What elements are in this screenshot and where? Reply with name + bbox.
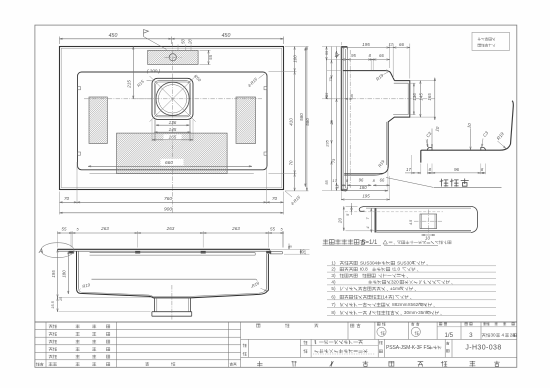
stamp box xyxy=(472,32,510,50)
elevation drain boss xyxy=(154,298,156,312)
section: drain boss inner wall xyxy=(393,83,408,114)
A-detail dims 7/4 xyxy=(370,208,372,232)
section top dim 195/12/66 xyxy=(340,42,342,45)
elevation drain centerline xyxy=(171,285,173,320)
drain outer square 165 xyxy=(152,78,193,119)
section bottom dim 195 xyxy=(341,199,389,201)
svg-text:195: 195 xyxy=(51,270,56,278)
clip tab right upper xyxy=(264,87,267,90)
elevation right dims 5/20 xyxy=(271,248,310,250)
clip tab left lower xyxy=(78,152,81,155)
drain diagonal 2 xyxy=(150,76,196,122)
bottom dim 900 xyxy=(60,212,284,214)
svg-text:PSSA-JSM-K-3F FS: PSSA-JSM-K-3F FS xyxy=(386,345,430,351)
svg-text:3): 3) xyxy=(331,273,336,278)
enlarged view rib left (C3) xyxy=(427,148,432,151)
svg-text:20: 20 xyxy=(301,249,306,255)
notes list xyxy=(327,265,496,267)
dim 215 xyxy=(132,47,134,99)
bottom dims 70/760/70 xyxy=(59,192,61,215)
svg-text:10: 10 xyxy=(425,236,430,241)
svg-text:410: 410 xyxy=(288,118,293,126)
drain circle outer xyxy=(156,82,189,115)
section: counter surface double line xyxy=(340,47,342,191)
enlarged dim 10 left xyxy=(431,129,433,148)
elevation mounting clips xyxy=(69,251,74,254)
stamps xyxy=(377,327,386,336)
svg-text:136: 136 xyxy=(412,93,417,101)
enlarged view rib right (C3) xyxy=(481,148,486,151)
faucet hole centerline xyxy=(165,56,182,58)
svg-text:263: 263 xyxy=(231,226,240,231)
svg-text:SUS304: SUS304 xyxy=(360,260,378,265)
drain centerline vertical xyxy=(172,42,174,213)
svg-text:215: 215 xyxy=(127,80,132,89)
dim 450/450 top xyxy=(59,37,61,45)
plan view: counter outer edge 900x580 xyxy=(60,47,284,190)
clip tab left upper xyxy=(78,87,81,90)
svg-text:66: 66 xyxy=(380,178,385,183)
svg-text:195: 195 xyxy=(362,42,370,47)
svg-text:263: 263 xyxy=(166,226,175,231)
section: rib centerline xyxy=(349,50,351,188)
section bottom dims 17/8/96/8/66 xyxy=(341,184,345,186)
elevation top dims xyxy=(56,231,58,248)
A-detail clip xyxy=(420,214,437,229)
svg-text:1): 1) xyxy=(331,260,336,265)
svg-text:66: 66 xyxy=(379,53,384,58)
drain centerline horizontal xyxy=(84,98,262,100)
elevation bowl bottom inner xyxy=(78,289,266,297)
header row labels xyxy=(257,324,260,327)
bowl opening flange line xyxy=(90,173,254,175)
finish flag symbol xyxy=(144,30,149,37)
section mid dim 17/95/8/66 xyxy=(370,60,372,70)
svg-text:145: 145 xyxy=(419,93,424,101)
enlarged view title xyxy=(440,179,468,187)
svg-text:30: 30 xyxy=(491,333,497,338)
elevation far bottom edge xyxy=(92,278,256,280)
A-detail dim 20 xyxy=(343,206,345,230)
hinmei col xyxy=(303,341,307,345)
svg-text:55: 55 xyxy=(208,54,213,59)
dim 55 deck height xyxy=(200,49,211,51)
svg-text:145: 145 xyxy=(169,127,177,132)
svg-text:136: 136 xyxy=(169,120,177,125)
svg-text:235: 235 xyxy=(324,92,329,100)
svg-text:S=1/1: S=1/1 xyxy=(362,240,379,246)
section: drain boss outline xyxy=(344,81,410,174)
svg-text:320: 320 xyxy=(391,280,399,285)
section: bottom edge bend xyxy=(341,190,347,192)
elevation far flange band xyxy=(90,252,256,254)
svg-text:12: 12 xyxy=(336,185,340,189)
clip tab right lower xyxy=(264,152,267,155)
svg-text:17: 17 xyxy=(332,178,337,183)
elevation bowl bottom outer xyxy=(77,289,269,298)
dim 660 pads xyxy=(88,165,252,167)
enlarged dim 10 right xyxy=(470,129,472,151)
enlarged bottom dims 17/8/96/8 xyxy=(420,164,422,175)
svg-text:760: 760 xyxy=(164,196,172,202)
section bottom dim 180 xyxy=(343,190,388,192)
revision rows xyxy=(49,325,57,328)
enlarged view flange profile xyxy=(421,101,514,163)
svg-text:100: 100 xyxy=(293,55,298,63)
bowl opening rounded rect 760x410 xyxy=(78,72,268,170)
svg-text:( 200 ): ( 200 ) xyxy=(147,68,161,73)
svg-text:900: 900 xyxy=(164,206,172,212)
svg-text:66: 66 xyxy=(399,42,404,47)
A-detail dim 5 xyxy=(351,203,353,215)
svg-text:580: 580 xyxy=(305,118,310,126)
svg-text:12: 12 xyxy=(389,42,394,47)
svg-text:660: 660 xyxy=(165,160,173,166)
elevation left wall xyxy=(76,251,78,289)
company name xyxy=(257,361,262,366)
white underlay for 165 text over hatch xyxy=(164,134,182,140)
svg-text:580: 580 xyxy=(299,113,304,121)
svg-text:2): 2) xyxy=(331,267,336,272)
title block left sub-table xyxy=(35,329,241,331)
svg-text:t1.0: t1.0 xyxy=(392,267,400,272)
svg-text:235: 235 xyxy=(325,139,330,147)
svg-text:882mmX562mm: 882mmX562mm xyxy=(392,302,426,307)
title block outline xyxy=(35,321,517,323)
svg-text:70: 70 xyxy=(288,160,293,165)
title block right sub-table lines xyxy=(241,338,517,340)
svg-text:6): 6) xyxy=(331,294,336,299)
section boss dims 136/145/165 xyxy=(411,80,437,82)
svg-text:70: 70 xyxy=(64,196,70,201)
A-detail top sheet xyxy=(359,206,366,211)
elevation flange top xyxy=(57,248,270,250)
svg-text:195: 195 xyxy=(362,194,370,199)
svg-text:450: 450 xyxy=(222,33,231,39)
plan view counter edge inner offset xyxy=(61,48,281,187)
svg-text:5): 5) xyxy=(331,286,336,291)
svg-text:263: 263 xyxy=(100,226,109,231)
svg-text:3: 3 xyxy=(469,332,473,339)
elevation flange right step xyxy=(269,249,271,254)
customer col xyxy=(243,344,247,347)
drain dims 136/145/165 xyxy=(156,124,190,126)
bottom revision row xyxy=(36,363,43,366)
white underlay for 660 text over hatch xyxy=(161,159,184,166)
svg-text:450: 450 xyxy=(109,33,118,39)
date xyxy=(482,333,490,337)
svg-text:180: 180 xyxy=(62,270,67,278)
svg-text:t0.8: t0.8 xyxy=(360,267,368,272)
A-detail bolt xyxy=(375,208,377,232)
section: top edge bend xyxy=(341,46,347,48)
elevation A callout ellipse xyxy=(41,243,74,258)
faucet hole xyxy=(169,54,176,61)
A-detail title xyxy=(323,239,365,244)
leader to enlarged view xyxy=(386,178,433,188)
svg-text:36: 36 xyxy=(350,94,354,98)
hinban col xyxy=(379,341,383,344)
svg-text:70: 70 xyxy=(272,196,278,201)
svg-text:8): 8) xyxy=(331,310,336,315)
svg-text:165: 165 xyxy=(427,93,432,101)
drain inner square 136 xyxy=(156,82,190,116)
svg-text:26: 26 xyxy=(329,120,334,126)
svg-text:96: 96 xyxy=(359,178,364,183)
drain circle inner xyxy=(158,85,186,113)
svg-text:A: A xyxy=(38,248,43,255)
section: bowl top wall xyxy=(343,71,394,81)
svg-text:15.5: 15.5 xyxy=(50,300,55,308)
svg-text:20: 20 xyxy=(187,39,192,45)
elevation left dims 195/180/15.5 xyxy=(57,249,59,297)
svg-text:J-H30-038: J-H30-038 xyxy=(465,345,501,352)
svg-text:180: 180 xyxy=(359,185,367,190)
drain mid square 145 xyxy=(154,81,190,117)
section left dim 580 xyxy=(304,47,306,186)
section: centerline horizontal xyxy=(328,98,435,100)
svg-text:4: 4 xyxy=(502,333,505,338)
svg-text:17: 17 xyxy=(406,167,411,172)
svg-text:1/5: 1/5 xyxy=(444,332,453,339)
svg-text:±1mm: ±1mm xyxy=(390,286,403,291)
right dim 580 xyxy=(306,47,308,191)
svg-text:20: 20 xyxy=(338,218,343,225)
drawing frame border xyxy=(35,25,517,367)
svg-text:55: 55 xyxy=(62,227,67,232)
svg-text:165: 165 xyxy=(169,134,177,139)
elevation right wall xyxy=(266,254,268,290)
svg-text:50: 50 xyxy=(180,39,185,44)
svg-text:95: 95 xyxy=(351,53,356,58)
A-detail bottom sheet xyxy=(377,230,471,232)
svg-text:(14: (14 xyxy=(381,294,388,299)
A-detail right cap xyxy=(471,206,478,232)
svg-text:55: 55 xyxy=(270,227,275,232)
section left dims stack xyxy=(326,47,328,99)
A-detail dim 10 xyxy=(422,234,435,236)
right dims 100/410/70 xyxy=(285,46,309,48)
svg-text:7): 7) xyxy=(331,302,336,307)
svg-text:4.5: 4.5 xyxy=(409,219,413,225)
svg-text:96: 96 xyxy=(454,167,460,172)
svg-text:4): 4) xyxy=(331,280,336,285)
drain diagonal 1 xyxy=(150,76,196,122)
A-detail centerline xyxy=(345,211,443,213)
section: back flange double line xyxy=(345,49,347,188)
zuban col xyxy=(446,342,449,345)
